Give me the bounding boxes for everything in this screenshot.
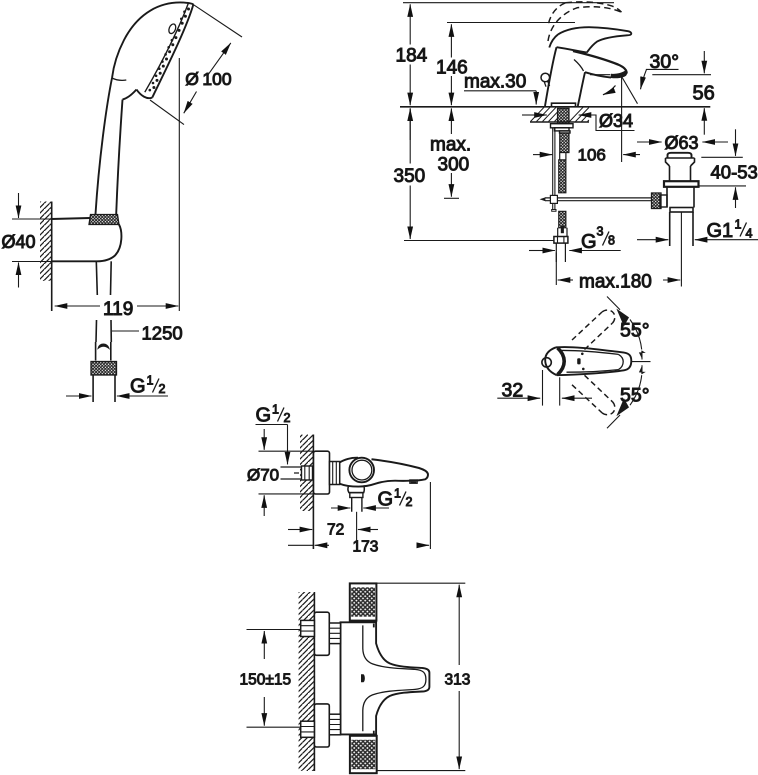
dimension G1 1/4 (637, 218, 758, 243)
shower head face plate edge (137, 4, 194, 99)
dimension 32 (497, 370, 592, 406)
svg-text:G1: G1 (707, 220, 734, 242)
dimension max.180 (556, 253, 680, 293)
pop-up waste body (667, 187, 694, 208)
svg-text:1: 1 (735, 218, 742, 232)
escutcheon (314, 451, 330, 494)
svg-text:1: 1 (147, 374, 154, 388)
spout tip extension (429, 482, 431, 549)
indicator dots and bar (577, 353, 584, 371)
body inner contour top (363, 625, 426, 731)
svg-text:Ø40: Ø40 (2, 232, 36, 252)
mixer body and spout (340, 458, 428, 487)
shower outlet block (348, 485, 364, 492)
dimension Ø34 (522, 111, 635, 131)
pop-up waste seal flange (664, 181, 699, 187)
svg-text:G: G (378, 489, 394, 511)
extension line beyond lower dashed tip (607, 415, 620, 428)
dimension 173 (288, 539, 429, 556)
top knob (textured) (350, 583, 377, 620)
bottom knob (textured) (350, 736, 377, 773)
deck / counter line (400, 106, 710, 108)
dimension 106 (533, 146, 640, 165)
outlet pipe G1/2 (352, 498, 362, 512)
svg-text:300: 300 (438, 155, 470, 176)
angle arc lower 55 (617, 365, 644, 415)
body circle outer (349, 458, 374, 483)
PART C: handle swivel top view (497, 297, 650, 429)
svg-text:40-53: 40-53 (711, 162, 758, 183)
svg-text:72: 72 (327, 522, 344, 539)
pop-up waste plug cap (668, 153, 692, 158)
tailpipe (670, 212, 693, 246)
dimension 40-53 (699, 129, 758, 208)
vertical pull rod (550, 128, 557, 212)
outlet pipe center extension (356, 512, 358, 549)
tick marks on body (373, 624, 375, 735)
svg-text:173: 173 (353, 539, 379, 556)
hose lower braid (559, 211, 566, 228)
svg-text:2: 2 (284, 411, 291, 425)
threaded shank (558, 108, 570, 123)
bottom union nut (329, 714, 340, 735)
svg-text:32: 32 (502, 380, 524, 402)
spray nozzles dots (149, 8, 191, 92)
faucet body (545, 47, 627, 106)
svg-text:max.30: max.30 (464, 72, 526, 93)
reference line aerator level (590, 74, 711, 76)
body with handle profile (341, 622, 430, 734)
dimension Ø70 (247, 429, 313, 516)
svg-text:55°: 55° (620, 385, 650, 407)
pull rod knob (541, 73, 550, 87)
tube below G3/8 nut (556, 243, 565, 262)
pop-up waste upper flange (666, 158, 695, 166)
horizontal pop-up rod (541, 198, 652, 201)
hose lower segment (96, 320, 111, 342)
svg-text:2: 2 (406, 495, 413, 509)
dimension line 184/350 (394, 4, 428, 239)
hose plain segment (560, 153, 566, 160)
extension line beyond upper dashed tip (607, 297, 620, 310)
dimension G 1/2 outlet (331, 487, 413, 511)
angle arc upper 55 (617, 310, 644, 360)
svg-text:1: 1 (272, 403, 279, 417)
dimension 119 (55, 299, 179, 320)
mounting nut and washer (551, 124, 574, 133)
knurled nut (91, 362, 117, 376)
dashed lever rotated down (572, 375, 615, 414)
svg-text:1: 1 (394, 487, 401, 501)
label 1250 (112, 323, 183, 344)
flow button black (361, 674, 365, 682)
svg-text:G: G (256, 405, 272, 427)
top escutcheon (314, 612, 329, 655)
lever body outline (556, 347, 631, 375)
lever handle (solid) (549, 27, 631, 52)
dimension line 146/max300 (430, 24, 471, 198)
aerator (black) (611, 70, 627, 78)
G3/8 nut (554, 237, 568, 244)
hose end fitting (558, 226, 567, 237)
svg-text:313: 313 (445, 672, 471, 689)
label G 1/2 top (256, 403, 291, 465)
svg-text:150±15: 150±15 (240, 672, 292, 689)
spout plumb line and 30 degree lines (622, 51, 679, 162)
PART E: thermostat (240, 583, 471, 773)
outlet nut band (350, 493, 363, 498)
reference lines for 313 (376, 583, 466, 770)
dimension 150±15 (240, 630, 301, 728)
escutcheon base on deck (552, 103, 576, 107)
svg-text:350: 350 (394, 166, 426, 187)
svg-text:2: 2 (159, 382, 166, 396)
tube below nut (93, 375, 115, 402)
svg-text:Ø 100: Ø 100 (185, 69, 232, 89)
in-wall hex nut (302, 466, 313, 480)
svg-text:55°: 55° (620, 319, 650, 341)
svg-text:max.180: max.180 (579, 271, 652, 292)
PART D: bath mixer (247, 403, 430, 556)
in-wall pipe stub (281, 467, 314, 479)
shower head chin / neck join (112, 78, 137, 214)
svg-text:4: 4 (746, 227, 753, 241)
svg-text:8: 8 (608, 234, 615, 248)
svg-text:56: 56 (693, 82, 715, 104)
reference line handle height 146 (447, 22, 575, 24)
shower head outer outline (96, 2, 194, 214)
top union nut (329, 623, 340, 644)
lever inner contour lines (559, 350, 624, 372)
centerline right of lever (632, 361, 651, 363)
dimension 313 (445, 585, 471, 769)
dashed lever rotated up (572, 310, 615, 349)
svg-text:G: G (130, 376, 146, 398)
pivot pin circle (542, 358, 551, 367)
reference line bottom 350 (404, 240, 554, 242)
pop-up rod boss (660, 195, 667, 207)
dimension G 1/2 (66, 374, 168, 398)
handle neck bold crescent (558, 348, 565, 375)
hose cone ferrule (96, 342, 111, 361)
body circle inner (352, 460, 372, 480)
wall surface line (312, 435, 314, 550)
reference line top (lever max height) (403, 2, 614, 4)
pop-up waste neck (670, 166, 691, 181)
top wall hex fitting (301, 620, 315, 636)
knurled hose cone at handle (89, 215, 119, 225)
dimension Ø100 (150, 5, 242, 125)
deck cross-section hatch (531, 107, 589, 121)
svg-text:119: 119 (103, 299, 133, 320)
svg-text:Ø63: Ø63 (665, 133, 699, 153)
svg-text:146: 146 (436, 58, 468, 79)
svg-text:G: G (581, 231, 597, 253)
pop-up waste bottom ring (670, 208, 693, 213)
dimension 56 (693, 51, 715, 135)
flexible hose braided (559, 160, 566, 193)
PART B: basin mixer (394, 2, 758, 292)
svg-text:1250: 1250 (142, 323, 183, 344)
tailpipe center extension (680, 212, 682, 287)
dimension max.30 (464, 72, 536, 105)
flexible hose upper (560, 133, 569, 153)
union nut (330, 462, 340, 485)
dimension G 3/8 (529, 225, 621, 254)
svg-text:106: 106 (578, 146, 606, 165)
wall hatch (bracket) (40, 202, 52, 312)
dimension Ø63 (637, 133, 728, 153)
deck underside line (530, 121, 589, 123)
aerator under spout (410, 480, 417, 483)
vertical extension line from head face (178, 58, 180, 311)
pop-up knurled knob (652, 193, 662, 209)
PART A: hand shower set (2, 2, 243, 402)
bottom escutcheon (314, 704, 329, 747)
svg-text:max.: max. (430, 135, 471, 156)
svg-text:Ø70: Ø70 (247, 466, 279, 485)
lever handle raised (dashed) (548, 2, 622, 41)
wall hatch (300, 435, 313, 512)
hose upper segment (96, 261, 111, 295)
bottom wall hex fitting (301, 721, 315, 737)
dimension Ø40 (2, 193, 52, 288)
wall hatch (299, 592, 315, 771)
svg-text:Ø34: Ø34 (599, 111, 633, 131)
wall holder body (52, 218, 122, 261)
svg-text:184: 184 (396, 46, 428, 67)
dimension 72 (288, 522, 378, 539)
swivel arc arrow under spout (603, 86, 616, 95)
handle back rounded end (545, 347, 557, 375)
wall surface line (313, 592, 315, 771)
svg-text:3: 3 (597, 225, 604, 239)
